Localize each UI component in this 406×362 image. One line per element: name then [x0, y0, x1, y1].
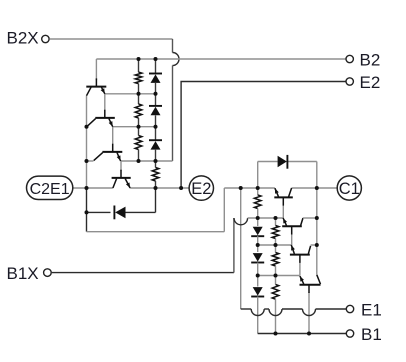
- svg-text:B1X: B1X: [7, 264, 39, 283]
- svg-text:E2: E2: [360, 73, 381, 92]
- svg-text:E2: E2: [191, 180, 211, 198]
- svg-text:B2X: B2X: [7, 29, 39, 48]
- svg-text:C1: C1: [339, 180, 360, 198]
- svg-text:C2E1: C2E1: [30, 181, 70, 198]
- svg-text:B2: B2: [360, 51, 381, 70]
- svg-text:B1: B1: [361, 325, 382, 344]
- svg-text:E1: E1: [361, 301, 382, 320]
